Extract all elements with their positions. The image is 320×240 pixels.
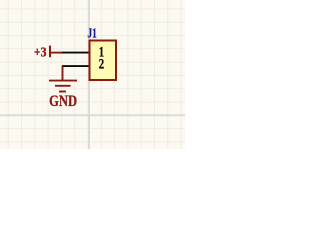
svg-text:2: 2 <box>99 57 104 73</box>
svg-text:J1: J1 <box>88 25 97 40</box>
svg-text:GND: GND <box>49 93 77 110</box>
pin 1 lead of J1 <box>62 52 89 54</box>
ground power port GND <box>49 66 77 91</box>
svg-text:+3: +3 <box>34 46 47 61</box>
connector J1 body <box>90 41 117 81</box>
power port +3 <box>50 46 62 58</box>
pin 2 lead of J1 <box>62 65 89 67</box>
